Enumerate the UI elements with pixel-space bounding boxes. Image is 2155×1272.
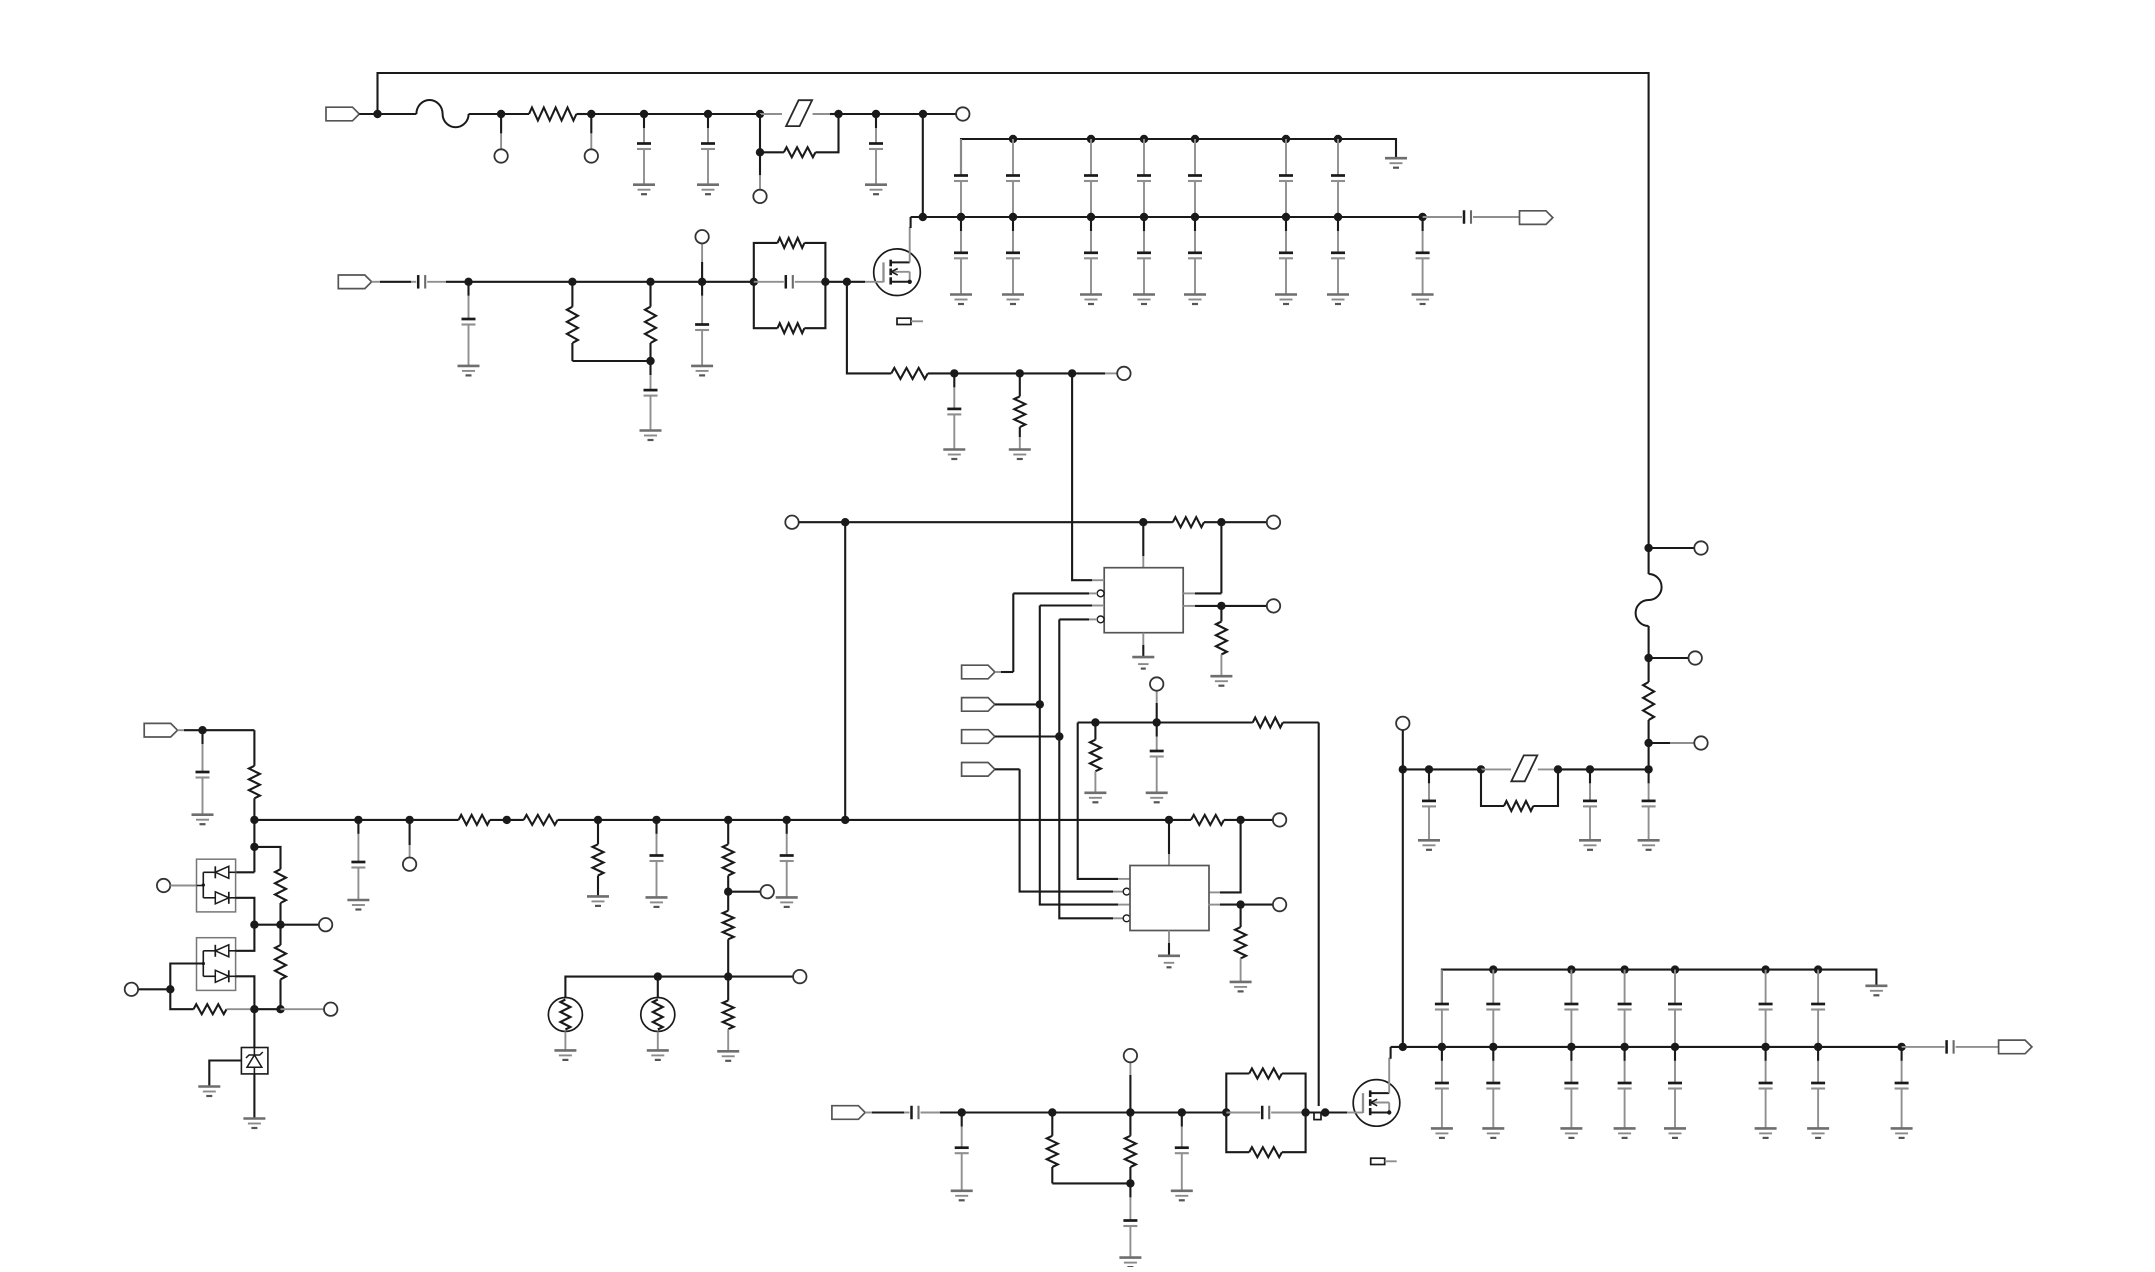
ground (1119, 1258, 1141, 1268)
capacitor C1 (637, 114, 651, 185)
junction (1091, 718, 1099, 726)
resistor R5 (778, 238, 805, 248)
terminal TP10 (1150, 677, 1163, 690)
terminal TP9 (1267, 599, 1280, 612)
wire (IC2 gnd pin) (1168, 931, 1170, 944)
IC U2 (1130, 866, 1209, 931)
pin lead (1092, 579, 1104, 581)
junction (1567, 1043, 1575, 1051)
port P7 (net flag) (962, 763, 995, 777)
junction (1814, 965, 1822, 973)
ground (1664, 1128, 1686, 1138)
net stub box (1314, 1113, 1321, 1120)
resistor R21 (1169, 815, 1241, 825)
wire (IC1 VIN pin) (1142, 522, 1144, 556)
wire (1590, 768, 1649, 770)
wire (1649, 742, 1670, 744)
wire (359, 113, 377, 115)
wire (to bottom bank) (1402, 769, 1404, 1047)
ground (647, 1050, 669, 1060)
wire (446, 281, 469, 283)
wire (760, 113, 782, 115)
junction (843, 278, 851, 286)
junction (1477, 765, 1485, 773)
resistor R28 (1125, 1113, 1136, 1184)
transistor Q1 (N-MOSFET) (874, 249, 921, 296)
ground (458, 366, 480, 376)
terminal TP24 (1124, 1049, 1137, 1062)
wire (IC2 pin1 lead) (1078, 723, 1118, 879)
junction (1761, 965, 1769, 973)
wire (RC loop top) (754, 243, 778, 282)
junction (1009, 213, 1017, 221)
junction (1222, 1108, 1230, 1116)
pin bubble (1097, 616, 1104, 623)
junction (1418, 213, 1426, 221)
wire (IC1 pin3 lead) (1040, 604, 1092, 606)
capacitor C17 (1331, 217, 1345, 295)
capacitor C53 (1175, 1113, 1189, 1191)
wire (1648, 743, 1650, 769)
junction (1399, 765, 1407, 773)
junction (1321, 1108, 1329, 1116)
fuse F2 (1511, 755, 1537, 781)
wire (1481, 768, 1511, 770)
ground (1132, 657, 1154, 669)
junction (1016, 369, 1024, 377)
resistor R17 (507, 815, 598, 825)
ground (1009, 450, 1031, 460)
wire (657, 819, 729, 821)
pin bubble (1123, 888, 1130, 895)
junction (821, 278, 829, 286)
junction (724, 888, 732, 896)
capacitor C27 (1564, 1047, 1578, 1129)
capacitor C18 (1416, 217, 1430, 295)
junction (1217, 602, 1225, 610)
junction (1036, 700, 1044, 708)
junction (652, 816, 660, 824)
ground (554, 1050, 576, 1060)
wire (995, 735, 1059, 737)
capacitor C3 (869, 114, 883, 185)
resistor R8 (1014, 373, 1025, 427)
ground (1560, 1128, 1582, 1138)
port P8 (input flag) (144, 723, 177, 737)
junction (250, 921, 258, 929)
junction (1191, 213, 1199, 221)
junction (1236, 900, 1244, 908)
resistor R15 (249, 730, 260, 821)
capacitor C23 (695, 282, 709, 366)
wire (1325, 1111, 1347, 1113)
wire (R2 branch) (760, 114, 784, 152)
wire (1072, 372, 1105, 374)
wire (1130, 1111, 1181, 1113)
wire (D2 common) (170, 964, 203, 990)
wire (RC loop top) (1226, 1074, 1249, 1113)
wire (bank2 upper bus) (1442, 970, 1877, 1004)
junction (646, 278, 654, 286)
junction (1153, 718, 1161, 726)
wire (stub to TP1) (500, 114, 502, 133)
wire (708, 113, 760, 115)
wire (1059, 619, 1113, 918)
wire (IC1 pin4 lead) (1059, 618, 1089, 620)
junction (250, 843, 258, 851)
capacitor C32 (650, 820, 664, 898)
terminal TP6 (1117, 367, 1130, 380)
resistor R18 (593, 820, 604, 897)
ground (347, 900, 369, 910)
wire (845, 521, 1143, 523)
wire (RC loop bottom) (754, 282, 778, 328)
pad stub (Q2) (1371, 1158, 1397, 1164)
ground (587, 896, 609, 906)
capacitor C30 (1759, 1047, 1773, 1129)
capacitor C24 (754, 275, 826, 289)
inductor L1 (ferrite bead) (416, 100, 468, 127)
wire (876, 113, 923, 115)
wire (923, 113, 956, 115)
junction (958, 1108, 966, 1116)
capacitor C8 (1188, 139, 1202, 217)
wire (stub to TP24) (1129, 1075, 1131, 1113)
wire (top bus) (378, 73, 1649, 548)
transistor Q2 (N-MOSFET) (1353, 1080, 1400, 1127)
capacitor C26 (1150, 723, 1164, 793)
junction (166, 985, 174, 993)
wire (bank upper bus) (961, 139, 1396, 176)
capacitor C28 (1618, 1047, 1632, 1129)
ground (1210, 676, 1232, 686)
ground (865, 185, 887, 195)
terminal TP21 (319, 918, 332, 931)
terminal TP15 (403, 858, 416, 871)
junction (1140, 135, 1148, 143)
ground (1327, 295, 1349, 305)
resistor R14 (1504, 801, 1533, 811)
terminal TP1 (494, 149, 507, 162)
capacitor C23 (1759, 970, 1773, 1047)
junction (1761, 1043, 1769, 1051)
terminal TP4 (956, 107, 969, 120)
junction (1489, 1043, 1497, 1051)
junction (1301, 1108, 1309, 1116)
resistor R16 (410, 815, 507, 825)
wire (Q1 drain riser) (910, 217, 912, 228)
wire (1020, 372, 1072, 374)
capacitor C25 (947, 373, 961, 449)
pin lead (1118, 904, 1130, 906)
wire (995, 703, 1040, 705)
junction (834, 110, 842, 118)
junction (950, 369, 958, 377)
wire (254, 924, 319, 926)
junction (1191, 135, 1199, 143)
junction (756, 110, 764, 118)
wire (1241, 819, 1273, 821)
terminal TP16 (761, 885, 774, 898)
junction (1140, 213, 1148, 221)
capacitor C19 (1486, 970, 1500, 1047)
ground (1865, 986, 1887, 996)
wire (564, 1032, 566, 1051)
wire (839, 113, 877, 115)
port P3 (input flag) (338, 275, 371, 289)
junction (276, 1005, 284, 1013)
wire (138, 988, 170, 990)
terminal TP14 (1396, 717, 1409, 730)
resistor R6 (778, 323, 805, 333)
ground (1431, 1128, 1453, 1138)
wire (227, 1008, 255, 1010)
capacitor C25 (1435, 1047, 1449, 1129)
resistor R11 (1090, 723, 1101, 772)
wire (stub to TP10) (1156, 703, 1158, 723)
ground (1482, 1128, 1504, 1138)
junction (1644, 765, 1652, 773)
wire (1220, 522, 1222, 593)
pin lead (1208, 891, 1220, 893)
fuse F1 (786, 100, 812, 126)
wire (Q2 drain riser) (1389, 1059, 1390, 1093)
resistor R22 (723, 977, 734, 1030)
wire (1052, 1182, 1130, 1184)
port P2 (output flag) (1520, 211, 1553, 225)
wire (RC loop bottom) (804, 282, 825, 328)
terminal TP11 (1694, 541, 1707, 554)
wire (R14 branch) (1481, 769, 1504, 806)
wire (378, 113, 417, 115)
junction (1399, 1043, 1407, 1051)
wire (847, 281, 865, 283)
wire (1020, 769, 1113, 891)
wire (253, 1074, 255, 1119)
wire (1221, 521, 1266, 523)
wire (178, 729, 185, 731)
capacitor C30 (196, 730, 210, 815)
capacitor C22 (1668, 970, 1682, 1047)
wire (VOUT bus) (1391, 1046, 1902, 1048)
capacitor C24 (1811, 970, 1825, 1047)
terminal TP7 (785, 516, 798, 529)
wire (236, 898, 255, 925)
junction (841, 518, 849, 526)
wire (to VIN bus) (922, 114, 924, 217)
junction (841, 816, 849, 824)
junction (1554, 765, 1562, 773)
wire (727, 1029, 729, 1051)
wire (RC loop top) (804, 243, 825, 282)
wire (1078, 721, 1096, 723)
wire (995, 671, 1001, 673)
terminal TP2 (585, 149, 598, 162)
resistor R10 (1216, 606, 1227, 655)
junction (1282, 213, 1290, 221)
wire (IC1 right pin2) (1183, 605, 1195, 607)
capacitor C32 (1895, 1047, 1909, 1129)
wire (1649, 547, 1695, 549)
wire (1403, 768, 1429, 770)
pin lead (1113, 891, 1123, 893)
junction (405, 816, 413, 824)
junction (1217, 518, 1225, 526)
wire (stub to TP15) (409, 820, 411, 845)
capacitor C9 (1279, 139, 1293, 217)
wire (572, 281, 650, 283)
junction (724, 972, 732, 980)
junction (1489, 965, 1497, 973)
capacitor C29 (1668, 1047, 1682, 1129)
ground (1412, 295, 1434, 305)
wire (1220, 655, 1222, 677)
resistor R26 (194, 1004, 227, 1014)
terminal TP5 (695, 230, 708, 243)
wire (IC1 gnd pin) (1142, 633, 1144, 645)
ground (1133, 295, 1155, 305)
ground (243, 1119, 265, 1129)
wire (253, 1009, 255, 1047)
wire (254, 847, 280, 869)
capacitor C20 (411, 275, 446, 289)
wire (IC1 pin1 lead) (1072, 373, 1092, 580)
capacitor C7 (1137, 139, 1151, 217)
port P6 (net flag) (962, 730, 995, 744)
junction (646, 357, 654, 365)
junction (783, 816, 791, 824)
junction (354, 816, 362, 824)
capacitor C33 (780, 820, 794, 898)
capacitor C13 (1084, 217, 1098, 295)
junction (1282, 135, 1290, 143)
resistor R19 (723, 820, 734, 892)
wire (1538, 768, 1558, 770)
junction (464, 278, 472, 286)
capacitor C29 (1642, 769, 1656, 840)
ground (633, 185, 655, 195)
wire (572, 360, 650, 362)
junction (373, 110, 381, 118)
resistor R30 (1249, 1147, 1282, 1157)
capacitor C2 (701, 114, 715, 185)
junction (1334, 213, 1342, 221)
junction (1048, 1108, 1056, 1116)
wire (1648, 626, 1650, 658)
capacitor C19 (1423, 210, 1520, 224)
ground (192, 815, 214, 825)
ground (1385, 158, 1407, 168)
junction (1087, 213, 1095, 221)
wire (657, 1032, 659, 1051)
wire (stub to TP2) (590, 114, 592, 133)
wire (1402, 730, 1404, 769)
junction (594, 816, 602, 824)
wire (1182, 1111, 1227, 1113)
junction (1126, 1179, 1134, 1187)
resistor R25 (275, 925, 286, 1010)
capacitor C5 (1006, 139, 1020, 217)
capacitor C27 (1422, 769, 1436, 840)
ground (1891, 1128, 1913, 1138)
wire (845, 819, 1169, 821)
junction (1644, 739, 1652, 747)
capacitor C31 (351, 820, 365, 900)
junction (919, 110, 927, 118)
resistor R4 (645, 282, 656, 361)
junction (1009, 135, 1017, 143)
capacitor C4 (954, 139, 968, 217)
junction (1438, 1043, 1446, 1051)
junction (497, 110, 505, 118)
resistor R2 (784, 147, 816, 157)
junction (1126, 1108, 1134, 1116)
resistor R1 (501, 108, 591, 121)
wire (170, 885, 196, 887)
wire (1012, 593, 1014, 672)
ground (776, 897, 798, 907)
inductor L2 (ferrite bead) (1636, 574, 1662, 626)
junction (1897, 1043, 1905, 1051)
capacitor C51 (955, 1113, 969, 1191)
wire (728, 976, 793, 978)
ground (640, 431, 662, 441)
port P5 (net flag) (962, 698, 995, 712)
resistor R12 (1157, 718, 1319, 728)
wire (962, 1111, 1053, 1113)
resistor R20 (723, 892, 734, 977)
wire (847, 282, 891, 374)
wire (1429, 768, 1481, 770)
wire (IC1 pin2 lead) (1013, 592, 1089, 594)
junction (1087, 135, 1095, 143)
wire (651, 281, 703, 283)
wire (Q2 drain riser) (1390, 1047, 1392, 1059)
wire (787, 819, 846, 821)
ground (943, 450, 965, 460)
junction (1586, 765, 1594, 773)
junction (1671, 965, 1679, 973)
junction (1671, 1043, 1679, 1051)
junction (250, 816, 258, 824)
capacitor C21 (1618, 970, 1632, 1047)
terminal TP20 (157, 879, 170, 892)
capacitor C16 (1279, 217, 1293, 295)
capacitor C33 (1902, 1040, 1999, 1054)
resistor R24 (275, 869, 286, 925)
wire (825, 281, 847, 283)
ground (198, 1087, 220, 1097)
pad stub (Q1) (897, 318, 923, 324)
junction (1425, 765, 1433, 773)
resistor R27 (1047, 1113, 1058, 1184)
wire (Q1 drain riser) (909, 228, 912, 262)
ground (1755, 1128, 1777, 1138)
wire (728, 819, 787, 821)
ground (1158, 956, 1180, 968)
ground (1275, 295, 1297, 305)
port P4 (net flag) (962, 665, 995, 679)
ground (1579, 840, 1601, 850)
ground (950, 295, 972, 305)
wire (IC2 right pin2) (1208, 904, 1220, 906)
diode D2 (dual diode) (197, 938, 236, 991)
junction (704, 110, 712, 118)
wire (995, 768, 1020, 770)
wire (728, 891, 760, 893)
wire (D3 ref lead) (209, 1061, 241, 1087)
wire (1306, 1111, 1326, 1113)
